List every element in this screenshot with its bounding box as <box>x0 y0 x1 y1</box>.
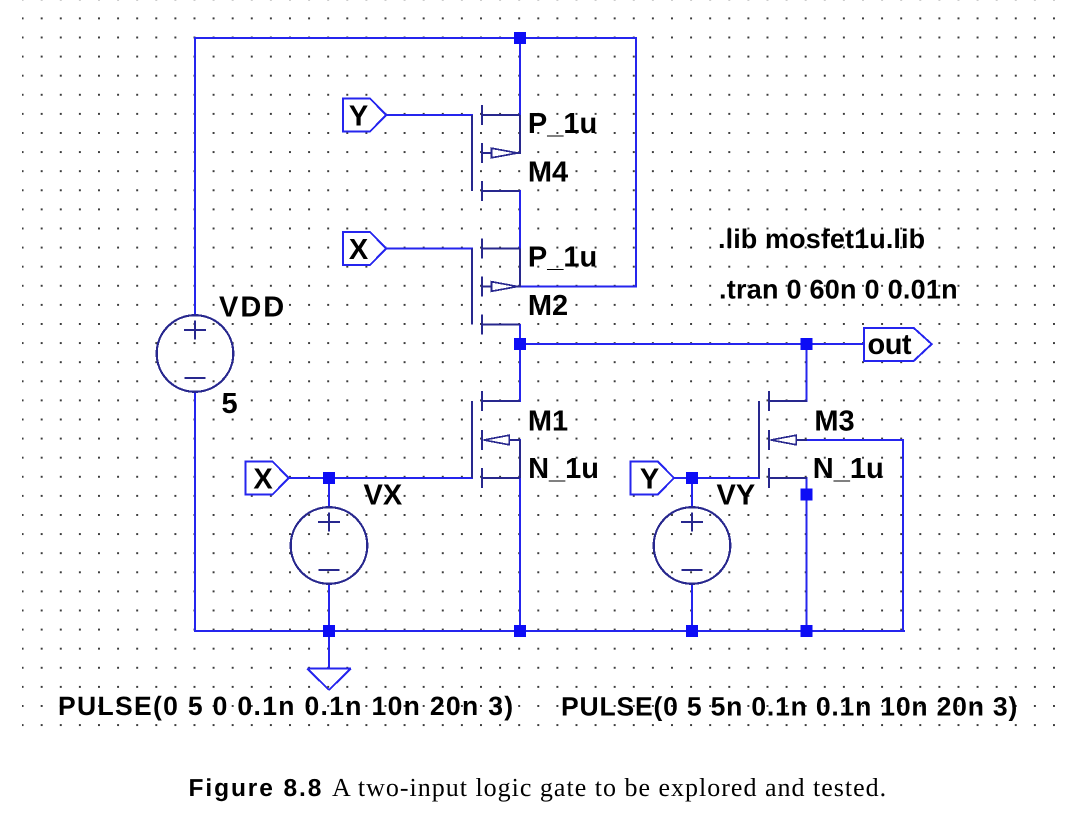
voltage source VDD <box>157 315 234 392</box>
directive .lib <box>718 224 925 254</box>
value P_1u (M4) <box>528 108 597 140</box>
wire X input to M2 gate <box>386 247 473 249</box>
svg-text:M3: M3 <box>814 406 854 438</box>
value N_1u (M3) <box>813 453 884 485</box>
ground <box>307 669 351 691</box>
svg-text:P_1u: P_1u <box>528 242 597 274</box>
wire VY bottom lead <box>691 583 693 632</box>
label VX <box>364 480 403 512</box>
svg-text:P_1u: P_1u <box>528 108 597 140</box>
svg-text:PULSE(0 5 0 0.1n 0.1n 10n 20n: PULSE(0 5 0 0.1n 0.1n 10n 20n 3) <box>58 691 514 721</box>
junction out node at M2 drain <box>514 338 526 350</box>
svg-text:Y: Y <box>640 463 659 495</box>
svg-text:.tran 0 60n 0 0.01n: .tran 0 60n 0 0.01n <box>719 275 958 305</box>
svg-text:.lib mosfet1u.lib: .lib mosfet1u.lib <box>718 224 925 254</box>
wire VY top lead <box>691 478 693 509</box>
junction rail / VX-ground <box>323 625 335 637</box>
svg-text:N_1u: N_1u <box>813 453 884 485</box>
value N_1u (M1) <box>528 453 599 485</box>
wire M4 drain to M2 source <box>519 190 521 250</box>
net flag out <box>864 328 932 361</box>
designator M2 <box>528 290 568 322</box>
value 5 (VDD) <box>222 388 238 420</box>
junction rail / VY <box>686 625 698 637</box>
wire VX top lead <box>328 478 330 509</box>
junction rail / M1 source <box>514 625 526 637</box>
svg-text:M4: M4 <box>528 157 568 189</box>
junction rail / M3 source <box>800 625 812 637</box>
wire M1 source to bottom rail <box>519 439 521 632</box>
svg-text:VX: VX <box>364 480 403 512</box>
junction node X at VX <box>323 472 335 484</box>
svg-text:N_1u: N_1u <box>528 453 599 485</box>
wire VX bottom lead <box>328 583 330 632</box>
junction out node at M3 drain <box>800 338 812 350</box>
net flag Y (M4 gate) <box>343 99 387 133</box>
svg-text:X: X <box>349 234 369 266</box>
nmos M3 <box>759 391 807 488</box>
wire VDD source top lead <box>194 38 196 317</box>
wire node X to M1 gate <box>289 477 473 479</box>
wire M2 drain to out node to M1 drain <box>519 324 521 402</box>
wire M4 source (top junction to M4) <box>519 38 521 116</box>
label VDD <box>219 292 286 324</box>
wire M2 source/bulk horizontal <box>517 285 636 287</box>
value P_1u (M2) <box>528 242 597 274</box>
wire VX ground lead <box>328 631 330 669</box>
label VY <box>717 480 756 512</box>
wire node Y to M3 gate <box>674 477 760 479</box>
junction M3 source pin <box>800 488 812 500</box>
designator M4 <box>528 157 568 189</box>
voltage source VX <box>291 507 368 584</box>
svg-text:VDD: VDD <box>219 292 286 324</box>
net flag X (VX) <box>245 462 288 496</box>
wire out net horizontal <box>520 343 864 345</box>
wire M3 bulk to right edge <box>795 439 904 441</box>
svg-text:Figure 8.8A two-input logic ga: Figure 8.8A two-input logic gate to be e… <box>189 773 888 802</box>
svg-text:PULSE(0 5 5n 0.1n 0.1n 10n 20n: PULSE(0 5 5n 0.1n 0.1n 10n 20n 3) <box>561 692 1018 722</box>
pmos M2 <box>472 238 521 334</box>
pmos M4 <box>472 105 521 201</box>
directive .tran <box>719 275 958 305</box>
designator M1 <box>528 405 568 437</box>
wire top rail VDD net <box>194 37 637 39</box>
net flag X (M2 gate) <box>343 232 387 266</box>
svg-text:M2: M2 <box>528 290 568 322</box>
wire right branch vertical (VDD to M2 source) <box>635 38 637 288</box>
value PULSE (VX) <box>58 691 514 721</box>
wire VDD source bottom lead <box>194 391 196 633</box>
voltage source VY <box>654 507 731 584</box>
svg-text:X: X <box>253 463 273 495</box>
wire out node to M3 drain <box>805 344 807 402</box>
wire bottom ground rail <box>194 630 905 632</box>
junction node Y at VY <box>686 472 698 484</box>
svg-text:out: out <box>868 329 912 361</box>
svg-text:Y: Y <box>349 100 368 132</box>
wire right edge vertical (M3 bulk to rail) <box>902 440 904 632</box>
net flag Y (VY) <box>631 462 675 496</box>
value PULSE (VY) <box>561 692 1018 722</box>
nmos M1 <box>472 391 520 488</box>
svg-text:M1: M1 <box>528 405 568 437</box>
junction top rail / M4 source <box>514 32 526 44</box>
svg-text:5: 5 <box>222 388 238 420</box>
designator M3 <box>814 406 854 438</box>
svg-text:VY: VY <box>717 480 756 512</box>
wire M3 source to bottom rail <box>805 477 807 632</box>
wire Y input to M4 gate <box>386 114 473 116</box>
